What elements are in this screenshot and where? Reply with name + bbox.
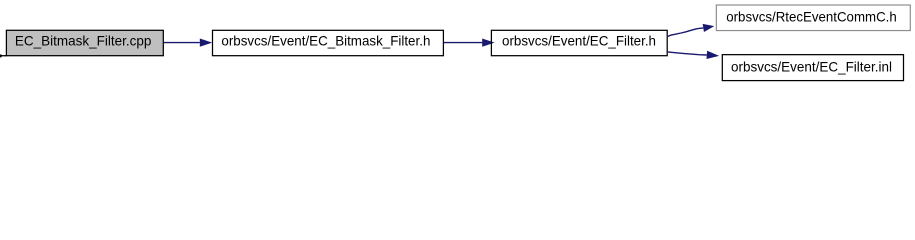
wire edge EC_Filter.h to EC_Filter.inl: [668, 52, 707, 55]
wire edge cpp to EC_Bitmask_Filter.h: [164, 42, 200, 44]
node orbsvcs/RtecEventCommC.h border: [716, 5, 910, 31]
node orbsvcs/Event/EC_Bitmask_Filter.h border: [213, 30, 444, 55]
arrowhead edge 1: [200, 38, 212, 46]
node EC_Bitmask_Filter.cpp fill: [6, 30, 163, 55]
wire edge EC_Bitmask_Filter.h to EC_Filter.h: [444, 42, 482, 44]
svg-text:orbsvcs/Event/EC_Bitmask_Filte: orbsvcs/Event/EC_Bitmask_Filter.h: [221, 34, 430, 49]
node orbsvcs/Event/EC_Bitmask_Filter.h fill: [213, 30, 444, 55]
wire edge EC_Filter.h to RtecEventCommC.h: [668, 28, 703, 36]
arrowhead edge 3: [703, 24, 715, 32]
svg-text:orbsvcs/RtecEventCommC.h: orbsvcs/RtecEventCommC.h: [726, 10, 897, 25]
artifact blob bottom-left corner: [0, 54, 2, 57]
arrowhead edge 4: [706, 51, 719, 59]
node orbsvcs/Event/EC_Filter.h border: [491, 30, 667, 55]
svg-text:EC_Bitmask_Filter.cpp: EC_Bitmask_Filter.cpp: [15, 34, 152, 49]
arrowhead edge 2: [482, 38, 494, 46]
node orbsvcs/Event/EC_Filter.inl fill: [722, 55, 903, 81]
node orbsvcs/Event/EC_Filter.h fill: [491, 30, 667, 55]
artifact line bottom-left: [0, 55, 7, 56]
node orbsvcs/Event/EC_Filter.inl border: [722, 55, 903, 81]
svg-text:orbsvcs/Event/EC_Filter.inl: orbsvcs/Event/EC_Filter.inl: [731, 59, 892, 74]
svg-text:orbsvcs/Event/EC_Filter.h: orbsvcs/Event/EC_Filter.h: [502, 34, 656, 49]
node EC_Bitmask_Filter.cpp border: [6, 30, 163, 55]
node orbsvcs/RtecEventCommC.h fill: [716, 5, 910, 31]
